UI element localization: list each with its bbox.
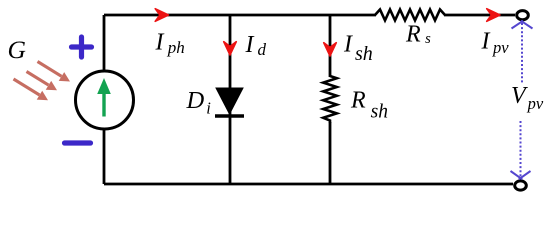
blue minus sign xyxy=(65,140,91,145)
wire diode branch xyxy=(229,15,232,184)
current source green arrow xyxy=(97,78,111,117)
red current arrow I_ph xyxy=(155,9,168,22)
wire bottom horizontal xyxy=(104,183,513,186)
current source circle xyxy=(76,71,134,129)
wire left branch vertical xyxy=(103,15,106,184)
svg-text:Id: Id xyxy=(245,32,267,59)
irradiance arrow 3 xyxy=(14,79,49,100)
wire shunt branch lower xyxy=(329,122,332,184)
resistor R_sh xyxy=(323,76,337,123)
irradiance arrow 2 xyxy=(27,72,58,91)
wire top-left horizontal xyxy=(104,14,376,17)
svg-text:Iph: Iph xyxy=(155,30,185,58)
svg-text:G: G xyxy=(8,35,26,64)
svg-text:Rsh: Rsh xyxy=(350,88,388,123)
wire shunt branch upper xyxy=(329,15,332,77)
svg-text:Ish: Ish xyxy=(343,32,373,66)
red current arrow I_pv xyxy=(487,9,500,22)
svg-text:Rs: Rs xyxy=(405,22,431,48)
blue plus sign xyxy=(72,37,92,57)
V_pv dashed arrow upper xyxy=(512,21,533,84)
diode D_i symbol xyxy=(215,88,244,116)
resistor R_s xyxy=(375,10,445,21)
svg-text:Di: Di xyxy=(186,87,212,118)
red current arrow I_d xyxy=(224,42,237,55)
svg-text:Vpv: Vpv xyxy=(511,83,544,113)
terminal top-right xyxy=(517,11,529,20)
V_pv dashed arrow lower xyxy=(511,121,531,179)
red current arrow I_sh xyxy=(324,43,337,56)
svg-text:Ipv: Ipv xyxy=(481,29,510,58)
irradiance arrow 1 xyxy=(38,62,71,82)
wire top-right horizontal xyxy=(444,14,515,17)
terminal bottom-right xyxy=(515,181,527,190)
